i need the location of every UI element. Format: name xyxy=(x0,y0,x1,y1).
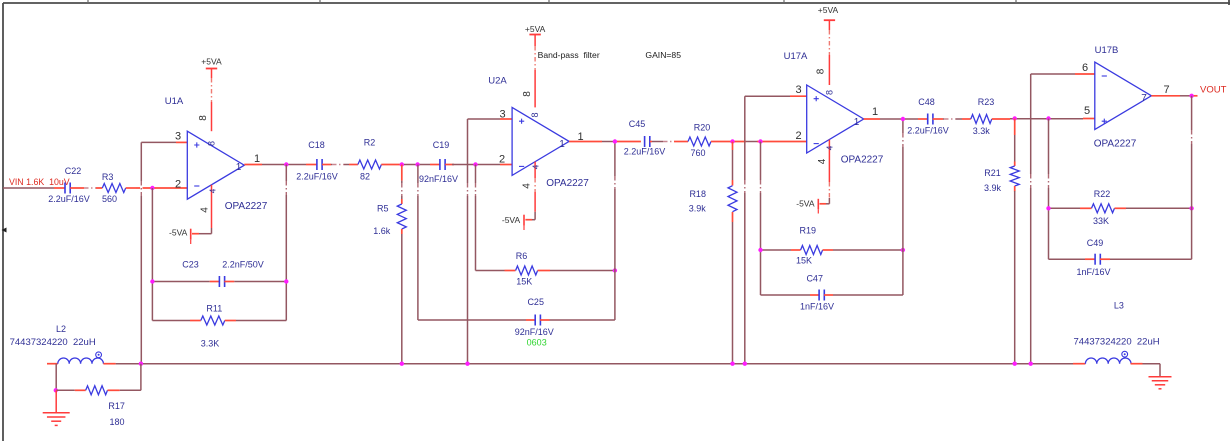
svg-text:C19: C19 xyxy=(433,140,450,150)
svg-text:U17A: U17A xyxy=(784,51,808,62)
svg-text:2: 2 xyxy=(175,179,181,191)
svg-text:1: 1 xyxy=(559,139,565,150)
svg-text:2: 2 xyxy=(795,130,801,142)
wire C18 to R2 xyxy=(322,163,358,165)
svg-text:C18: C18 xyxy=(308,140,325,150)
svg-text:C47: C47 xyxy=(806,274,823,284)
junction L2/R17/ground node xyxy=(54,388,58,392)
junction U2A pin3 on rail xyxy=(465,362,469,366)
power -5VA at U17A xyxy=(796,140,830,214)
resistor R6 xyxy=(476,251,615,275)
svg-text:6: 6 xyxy=(1082,62,1088,74)
capacitor C49 xyxy=(1049,238,1192,265)
svg-text:-5VA: -5VA xyxy=(169,228,188,238)
capacitor C45 xyxy=(629,119,650,147)
wire U17B pin 6 to ground rail xyxy=(1030,74,1095,364)
wire R3 to U1A pin 2 xyxy=(126,187,188,189)
svg-text:92nF/16V: 92nF/16V xyxy=(419,174,458,184)
svg-text:33K: 33K xyxy=(1093,216,1109,226)
wire U17A output xyxy=(864,118,928,120)
U17A pin 1 number xyxy=(854,106,878,128)
wire U1A feedback left vertical xyxy=(151,188,153,321)
resistor R11 xyxy=(152,304,286,326)
junction U1A output node xyxy=(284,162,288,166)
svg-text:OPA2227: OPA2227 xyxy=(546,178,589,189)
svg-text:3: 3 xyxy=(175,131,181,143)
svg-text:R20: R20 xyxy=(694,123,711,133)
svg-text:Band-pass filter: Band-pass filter xyxy=(538,50,600,60)
resistor R20 xyxy=(688,123,711,147)
svg-text:8: 8 xyxy=(816,68,827,74)
svg-text:3.9k: 3.9k xyxy=(984,183,1002,193)
junction L2 node on rail xyxy=(139,362,143,366)
wire R22 feedback tap vertical xyxy=(1047,119,1049,260)
U2A pin 4 number xyxy=(522,164,541,189)
wire U1A pin 3 to ground rail xyxy=(140,142,187,363)
svg-text:1: 1 xyxy=(236,162,242,173)
wire R20 to U17A pin 2 xyxy=(711,141,807,143)
capacitor C18 xyxy=(308,140,325,170)
svg-text:560: 560 xyxy=(102,194,117,204)
svg-text:4: 4 xyxy=(817,158,828,164)
wire R19 feedback tap vertical xyxy=(759,142,761,296)
power -5VA at U2A xyxy=(502,162,536,230)
junction R22 feedback tap node xyxy=(1046,116,1050,120)
svg-text:+5VA: +5VA xyxy=(818,5,839,15)
svg-text:R19: R19 xyxy=(800,226,817,236)
svg-text:2.2uF/16V: 2.2uF/16V xyxy=(48,194,90,204)
junction R18 on rail xyxy=(730,362,734,366)
capacitor C25 xyxy=(418,297,615,326)
svg-text:15K: 15K xyxy=(796,256,812,266)
svg-text:L3: L3 xyxy=(1114,301,1124,311)
wire C48 to R23 xyxy=(933,118,971,120)
junction U17A output node xyxy=(901,117,905,121)
svg-text:R6: R6 xyxy=(516,251,528,261)
junction R22 left xyxy=(1046,206,1050,210)
svg-text:2.2uF/16V: 2.2uF/16V xyxy=(296,172,338,182)
svg-text:C23: C23 xyxy=(182,260,199,270)
wire U1A output xyxy=(244,164,317,166)
svg-text:L2: L2 xyxy=(56,324,66,334)
power +5VA at U2A xyxy=(525,24,546,107)
capacitor C19 xyxy=(433,140,450,170)
svg-text:R17: R17 xyxy=(108,401,125,411)
svg-text:R21: R21 xyxy=(984,168,1001,178)
svg-text:74437324220 22uH: 74437324220 22uH xyxy=(1074,337,1160,348)
svg-text:7: 7 xyxy=(1141,93,1147,104)
junction R6 right xyxy=(613,268,617,272)
wire R23 to U17B pin 5 xyxy=(992,118,1095,121)
svg-text:C48: C48 xyxy=(918,97,935,107)
svg-text:OPA2227: OPA2227 xyxy=(841,155,884,166)
resistor R5 shunt to rail xyxy=(377,165,406,364)
capacitor C22 xyxy=(65,166,82,194)
junction R21 on rail xyxy=(1013,362,1017,366)
wire U2A output xyxy=(569,141,641,143)
resistor R21 shunt to rail xyxy=(984,119,1019,364)
wire L3 to ground corner xyxy=(1143,364,1161,377)
U17A pin 8 number xyxy=(816,68,835,95)
svg-text:8: 8 xyxy=(530,112,540,117)
svg-text:U1A: U1A xyxy=(165,96,184,107)
op-amp U2A xyxy=(488,75,569,175)
svg-text:3.3K: 3.3K xyxy=(201,339,220,349)
U17A pin 4 number xyxy=(817,145,835,164)
svg-text:GAIN=85: GAIN=85 xyxy=(645,50,681,60)
svg-text:-5VA: -5VA xyxy=(502,215,521,225)
wire R2 to C19 xyxy=(381,164,440,166)
svg-text:5: 5 xyxy=(1084,105,1090,117)
junction C23 left xyxy=(150,279,154,283)
svg-text:92nF/16V: 92nF/16V xyxy=(515,327,554,337)
wire U1A feedback right vertical xyxy=(285,165,287,321)
U2A pin 8 number xyxy=(522,91,540,118)
svg-text:7: 7 xyxy=(1163,84,1169,96)
op-amp U17A xyxy=(784,51,864,153)
svg-text:1: 1 xyxy=(872,106,878,118)
svg-text:-5VA: -5VA xyxy=(796,198,815,208)
svg-text:+5VA: +5VA xyxy=(201,57,222,67)
wire C45 to R20 xyxy=(650,140,688,142)
junction R5 on rail xyxy=(400,362,404,366)
svg-text:R23: R23 xyxy=(978,97,995,107)
svg-text:8: 8 xyxy=(198,115,209,121)
net VIN input wire xyxy=(3,187,65,189)
sheet border top line xyxy=(3,0,1230,5)
svg-text:R2: R2 xyxy=(364,138,376,148)
svg-text:+5VA: +5VA xyxy=(525,24,546,34)
svg-text:4: 4 xyxy=(532,164,541,169)
resistor R18 shunt to rail xyxy=(689,142,737,364)
svg-text:OPA2227: OPA2227 xyxy=(1094,139,1137,150)
svg-text:760: 760 xyxy=(690,148,705,158)
svg-text:3.3k: 3.3k xyxy=(973,126,991,136)
junction C25 branch node xyxy=(415,162,419,166)
ground at L3 xyxy=(1149,376,1172,378)
svg-text:U2A: U2A xyxy=(488,75,507,86)
power -5VA at U1A xyxy=(169,185,211,244)
junction U17A pin3 on rail xyxy=(743,362,747,366)
capacitor C48 xyxy=(918,97,935,125)
junction VOUT node xyxy=(1189,94,1193,98)
svg-text:1: 1 xyxy=(854,117,860,128)
svg-text:U17B: U17B xyxy=(1095,45,1119,56)
svg-text:1: 1 xyxy=(254,153,260,165)
wire U17A output feedback vertical xyxy=(902,119,904,295)
svg-text:3: 3 xyxy=(795,84,801,96)
U1A pin 4 number xyxy=(200,188,218,213)
svg-text:R11: R11 xyxy=(206,304,222,314)
svg-text:2.2uF/16V: 2.2uF/16V xyxy=(907,126,949,136)
svg-text:3.9k: 3.9k xyxy=(689,204,707,214)
junction R5 tap node A xyxy=(400,162,404,166)
junction R6 feedback tap node xyxy=(473,162,477,166)
svg-text:82: 82 xyxy=(360,172,370,182)
junction U17B pin6 on rail xyxy=(1029,362,1033,366)
junction R19 left xyxy=(758,248,762,252)
resistor R23 xyxy=(971,97,994,124)
svg-text:1nF/16V: 1nF/16V xyxy=(800,302,834,312)
wire ground reference rail xyxy=(116,363,1073,365)
resistor R2 xyxy=(358,138,382,170)
svg-text:1.6k: 1.6k xyxy=(373,226,391,236)
svg-text:R5: R5 xyxy=(377,204,389,214)
wire VOUT feedback vertical xyxy=(1190,96,1192,259)
capacitor C23 xyxy=(152,260,286,288)
junction R18 tap node xyxy=(730,139,734,143)
resistor R19 xyxy=(761,226,903,255)
svg-text:VOUT: VOUT xyxy=(1200,85,1227,96)
svg-text:8: 8 xyxy=(207,141,217,146)
wire R17 right leg up to rail xyxy=(140,364,142,391)
svg-text:15K: 15K xyxy=(516,277,532,287)
U2A pin 1 number xyxy=(559,131,583,150)
wire U2A pin 3 to ground rail xyxy=(466,119,512,364)
resistor R17 xyxy=(56,386,141,411)
svg-text:3: 3 xyxy=(499,109,505,121)
U1A pin 1 number xyxy=(236,153,260,173)
svg-text:4: 4 xyxy=(209,188,218,193)
L2 polarity dot xyxy=(96,352,102,358)
svg-text:8: 8 xyxy=(825,90,835,95)
U17B pin 7 number xyxy=(1141,84,1169,104)
junction R21 tap node xyxy=(1013,116,1017,120)
svg-text:OPA2227: OPA2227 xyxy=(225,201,268,212)
svg-text:C25: C25 xyxy=(527,297,544,307)
svg-text:2: 2 xyxy=(499,154,505,166)
svg-text:R3: R3 xyxy=(102,172,114,182)
resistor R3 xyxy=(102,172,126,193)
resistor R22 xyxy=(1049,189,1192,213)
svg-text:C49: C49 xyxy=(1087,238,1104,248)
svg-text:2.2nF/50V: 2.2nF/50V xyxy=(222,260,264,270)
wire C25 branch vertical xyxy=(417,165,419,321)
wire U2A output feedback vertical xyxy=(614,142,616,321)
junction R22 right xyxy=(1189,206,1193,210)
svg-text:2.2uF/16V: 2.2uF/16V xyxy=(624,147,666,157)
L3 polarity dot xyxy=(1122,351,1128,357)
svg-text:4: 4 xyxy=(200,207,211,213)
wire C19 to U2A pin 2 xyxy=(445,164,512,166)
junction R19 right xyxy=(901,248,905,252)
op-amp U1A xyxy=(165,96,245,199)
junction R19 feedback tap node xyxy=(758,139,762,143)
U1A pin 8 number xyxy=(198,115,217,146)
sheet border left line xyxy=(2,3,7,441)
svg-text:1nF/16V: 1nF/16V xyxy=(1076,267,1110,277)
svg-text:C45: C45 xyxy=(629,119,646,129)
junction U2A output node xyxy=(613,139,617,143)
svg-text:8: 8 xyxy=(522,91,533,97)
wire R6 feedback tap vertical xyxy=(474,165,476,271)
svg-text:4: 4 xyxy=(522,183,533,189)
inductor L2 xyxy=(47,324,116,364)
wire C22 to R3 xyxy=(70,187,102,189)
svg-text:74437324220 22uH: 74437324220 22uH xyxy=(10,337,96,348)
junction R3/U1A pin2 node xyxy=(150,186,154,190)
capacitor C47 xyxy=(761,274,903,301)
op-amp U17B xyxy=(1095,45,1152,130)
svg-text:0603: 0603 xyxy=(527,338,547,348)
power +5VA at U1A xyxy=(201,57,222,132)
wire U17B output to VOUT xyxy=(1151,95,1197,97)
svg-text:C22: C22 xyxy=(65,166,82,176)
wire U17A pin 3 to ground rail xyxy=(744,96,807,364)
ground at L2 xyxy=(43,390,70,425)
junction C23 right xyxy=(284,279,288,283)
svg-text:4: 4 xyxy=(826,145,835,150)
svg-text:R18: R18 xyxy=(689,189,706,199)
svg-text:180: 180 xyxy=(109,417,124,427)
svg-text:R22: R22 xyxy=(1094,189,1111,199)
inductor L3 xyxy=(1073,301,1143,364)
power +5VA at U17A xyxy=(818,5,839,85)
wire L2 left leg down xyxy=(55,364,57,391)
svg-text:VIN 1.6K 10uV: VIN 1.6K 10uV xyxy=(9,177,70,187)
